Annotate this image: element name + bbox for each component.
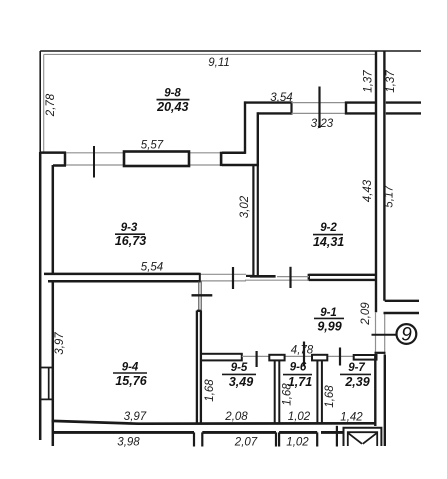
svg-text:2,39: 2,39 — [344, 375, 369, 389]
svg-text:1,71: 1,71 — [288, 375, 312, 389]
svg-text:9: 9 — [401, 325, 412, 346]
svg-text:3,97: 3,97 — [54, 332, 66, 355]
svg-text:1,68: 1,68 — [324, 385, 336, 408]
svg-text:9-6: 9-6 — [290, 362, 307, 374]
svg-text:9-2: 9-2 — [320, 222, 337, 234]
svg-text:15,76: 15,76 — [115, 374, 147, 388]
svg-text:3,49: 3,49 — [229, 375, 253, 389]
svg-text:9-7: 9-7 — [348, 362, 365, 374]
svg-text:1,02: 1,02 — [286, 436, 309, 448]
svg-text:1,37: 1,37 — [385, 70, 397, 93]
svg-text:5,54: 5,54 — [141, 262, 163, 274]
svg-text:5,17: 5,17 — [384, 185, 396, 208]
svg-text:9-1: 9-1 — [320, 307, 337, 319]
svg-text:2,78: 2,78 — [45, 93, 57, 117]
svg-text:20,43: 20,43 — [156, 100, 188, 114]
svg-text:1,42: 1,42 — [340, 412, 363, 424]
svg-text:4,43: 4,43 — [362, 179, 374, 202]
svg-text:9,11: 9,11 — [208, 57, 230, 69]
svg-text:4,78: 4,78 — [291, 345, 314, 357]
svg-text:2,07: 2,07 — [234, 436, 258, 448]
svg-text:16,73: 16,73 — [115, 234, 146, 248]
svg-text:3,98: 3,98 — [117, 436, 140, 448]
svg-text:9-8: 9-8 — [164, 88, 181, 100]
svg-text:9,99: 9,99 — [317, 320, 341, 334]
svg-text:1,37: 1,37 — [363, 70, 375, 93]
svg-text:9-4: 9-4 — [122, 362, 139, 374]
svg-text:2,08: 2,08 — [224, 411, 248, 423]
svg-text:3,54: 3,54 — [270, 92, 292, 104]
svg-text:14,31: 14,31 — [313, 235, 344, 249]
svg-text:5,57: 5,57 — [141, 140, 164, 152]
svg-text:9-5: 9-5 — [231, 362, 248, 374]
svg-text:9-3: 9-3 — [121, 222, 138, 234]
svg-text:2,09: 2,09 — [360, 302, 372, 326]
svg-text:3,02: 3,02 — [239, 195, 251, 218]
svg-text:3,97: 3,97 — [124, 411, 147, 423]
svg-text:1,02: 1,02 — [288, 411, 311, 423]
svg-text:3,23: 3,23 — [311, 118, 334, 130]
svg-text:1,68: 1,68 — [204, 379, 216, 402]
